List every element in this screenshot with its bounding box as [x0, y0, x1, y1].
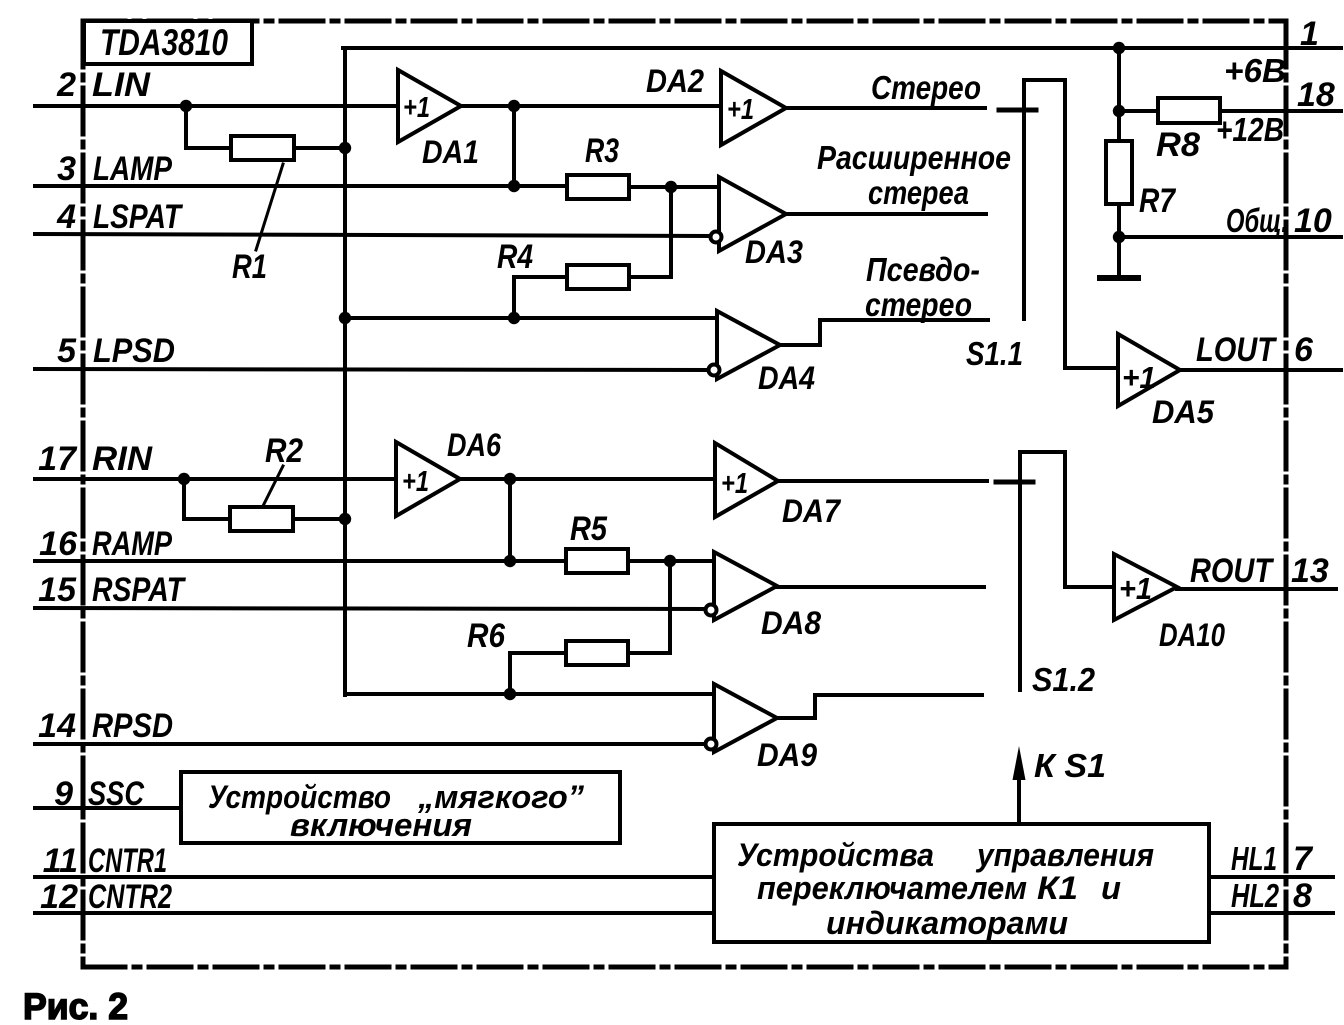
op-amp DA3: [711, 177, 804, 270]
svg-text:DA4: DA4: [758, 360, 815, 396]
svg-text:стереа: стереа: [868, 174, 969, 211]
wire CNTR1 row (pin 11 to control box): [35, 875, 714, 879]
wire LSPAT row (pin 4 to DA3 inverting input): [35, 234, 710, 236]
svg-text:переключателем: переключателем: [757, 870, 1027, 906]
svg-text:HL2: HL2: [1231, 877, 1279, 914]
wire DA1 output to junction: [461, 104, 514, 108]
wire DA2 output (stereo): [786, 106, 985, 110]
wire RAMP row (pin 16 to R5): [35, 559, 566, 563]
op-amp DA7: [715, 443, 842, 529]
svg-text:7: 7: [1293, 840, 1314, 878]
node common row junction: [1113, 231, 1125, 243]
wire RIN to R2: [184, 479, 230, 519]
wire DA8 output: [777, 585, 984, 589]
svg-text:и: и: [1101, 870, 1121, 906]
svg-text:R2: R2: [265, 432, 303, 470]
resistor R4: [567, 265, 629, 289]
svg-text:10: 10: [1294, 202, 1332, 240]
svg-text:LIN: LIN: [92, 66, 152, 104]
svg-text:TDA3810: TDA3810: [100, 22, 228, 63]
switch S1.2: [996, 452, 1096, 698]
svg-text:Стерео: Стерео: [871, 69, 981, 106]
R1 value label with leader: [232, 164, 283, 286]
wire SSC row (pin 9 to soft-start box): [35, 806, 182, 810]
node R8 branch junction: [1113, 105, 1125, 117]
node R1/main vertical junction: [339, 142, 351, 154]
svg-text:6: 6: [1294, 331, 1314, 369]
node pseudo row junction at x514: [508, 312, 520, 324]
node DA1 output junction: [508, 100, 520, 112]
wire RSPAT row (pin 15 to DA8 inverting input): [35, 608, 706, 609]
wire LOUT row (DA5 to pin 6): [1180, 368, 1341, 372]
svg-text:К S1: К S1: [1034, 747, 1106, 784]
svg-text:Псевдо-: Псевдо-: [866, 251, 980, 288]
wire ROUT row (DA10 to pin 13): [1177, 587, 1336, 591]
svg-text:R4: R4: [497, 238, 533, 276]
wire LIN row (pin 2 to DA2 input): [35, 104, 721, 108]
svg-text:R7: R7: [1139, 182, 1177, 220]
op-amp DA6: [396, 427, 501, 516]
wire +6V rail (pin 1 net): [343, 46, 1341, 50]
op-amp DA5: [1118, 334, 1215, 430]
svg-text:DA10: DA10: [1159, 617, 1225, 653]
svg-text:2: 2: [56, 66, 76, 104]
svg-text:CNTR1: CNTR1: [88, 842, 167, 880]
op-amp DA4: [709, 311, 816, 396]
svg-text:DA9: DA9: [757, 737, 817, 773]
svg-text:+1: +1: [727, 94, 754, 126]
svg-text:RIN: RIN: [92, 440, 153, 478]
svg-text:DA1: DA1: [422, 134, 479, 170]
wire pin 18 row: [1220, 109, 1341, 113]
svg-text:DA2: DA2: [646, 63, 704, 99]
svg-text:Общ.: Общ.: [1226, 202, 1288, 239]
wire DA7 output: [778, 479, 987, 483]
svg-text:стерео: стерео: [865, 286, 972, 323]
op-amp DA8: [706, 552, 822, 641]
wire R7 to ground: [1117, 204, 1121, 278]
node RAMP row junction: [504, 555, 516, 567]
svg-text:14: 14: [38, 707, 76, 745]
svg-text:8: 8: [1293, 877, 1312, 915]
resistor R7: [1106, 141, 1132, 204]
wire CNTR2 row (pin 12 to control box): [35, 911, 714, 915]
wire RPSD row (pin 14 to DA9 inverting input): [35, 742, 706, 746]
svg-text:+1: +1: [1119, 571, 1152, 606]
op-amp DA10: [1114, 554, 1225, 653]
svg-text:LAMP: LAMP: [93, 150, 172, 188]
wire DA1 output down to LAMP row: [512, 106, 516, 186]
wire RIN row (pin 17 to DA7 input): [35, 477, 715, 481]
title box TDA3810: [84, 21, 252, 64]
wire junction down to R4: [629, 187, 671, 277]
control unit box: [714, 824, 1209, 942]
node rail/R7 junction: [1113, 42, 1125, 54]
resistor R6: [566, 641, 628, 665]
svg-text:+12В: +12В: [1216, 111, 1284, 148]
svg-text:11: 11: [43, 842, 78, 880]
svg-text:CNTR2: CNTR2: [88, 878, 172, 916]
node bottom row junction: [504, 688, 516, 700]
svg-text:LSPAT: LSPAT: [93, 198, 184, 236]
svg-text:17: 17: [38, 440, 78, 478]
wire R4 left end down to pseudo row: [514, 277, 567, 318]
R2 value label with leader: [263, 432, 303, 506]
svg-text:DA3: DA3: [745, 234, 803, 270]
node pseudo row junction at main vertical: [339, 312, 351, 324]
svg-text:5: 5: [57, 332, 77, 370]
svg-text:Устройства: Устройства: [737, 837, 934, 873]
resistor R2: [230, 507, 293, 531]
svg-text:15: 15: [38, 571, 77, 609]
svg-text:+1: +1: [403, 92, 430, 124]
resistor R3: [567, 175, 629, 199]
wire pseudo row (main vertical to DA4 input): [345, 316, 717, 320]
op-amp DA9: [706, 684, 818, 773]
wire main vertical bus: [343, 48, 347, 695]
svg-text:S1.1: S1.1: [966, 335, 1023, 372]
node LAMP row junction: [508, 180, 520, 192]
svg-text:Рис. 2: Рис. 2: [23, 986, 128, 1025]
svg-text:1: 1: [1300, 15, 1319, 53]
svg-text:4: 4: [56, 198, 76, 236]
wire bottom row (main vertical to DA9 input): [345, 692, 714, 696]
svg-text:RAMP: RAMP: [92, 525, 172, 563]
svg-text:R3: R3: [585, 132, 619, 170]
wire R2 to main vertical: [293, 517, 345, 521]
svg-text:12: 12: [40, 878, 78, 916]
svg-text:Расширенное: Расширенное: [817, 139, 1011, 176]
op-amp DA1: [398, 70, 479, 170]
svg-text:DA5: DA5: [1152, 394, 1215, 430]
svg-text:13: 13: [1291, 552, 1329, 590]
svg-text:R5: R5: [570, 510, 608, 548]
op-amp DA2: [646, 63, 786, 145]
svg-text:18: 18: [1297, 76, 1335, 114]
wire R7 branch vertical: [1117, 48, 1121, 141]
svg-text:R6: R6: [467, 617, 506, 655]
svg-text:R8: R8: [1156, 126, 1200, 164]
svg-text:DA7: DA7: [782, 493, 842, 529]
svg-text:RSPAT: RSPAT: [92, 571, 187, 609]
node LIN junction: [180, 100, 192, 112]
arrow to K S1: [1013, 746, 1107, 824]
wire S1.1 wiper to DA5: [1065, 366, 1118, 370]
wire R6 left end down to bottom row: [510, 653, 566, 694]
svg-text:3: 3: [57, 150, 76, 188]
svg-text:LPSD: LPSD: [93, 332, 175, 370]
resistor R1: [231, 136, 294, 160]
wire R3 to DA3 input: [629, 185, 719, 189]
node DA6 output junction: [504, 473, 516, 485]
wire S1.2 wiper to DA10: [1065, 585, 1114, 589]
wire R5 to DA8 input: [628, 559, 714, 563]
soft start unit box: [181, 772, 620, 843]
resistor R8: [1158, 98, 1220, 123]
svg-text:индикаторами: индикаторами: [826, 905, 1068, 941]
svg-text:DA6: DA6: [447, 427, 501, 463]
svg-text:+1: +1: [1122, 360, 1156, 395]
svg-text:R1: R1: [232, 248, 267, 286]
wire DA6 output down to RAMP row: [508, 479, 512, 561]
node R5/R6/DA8 junction: [664, 555, 676, 567]
svg-text:+6В: +6В: [1224, 52, 1286, 89]
svg-text:RPSD: RPSD: [92, 707, 173, 745]
svg-text:+1: +1: [721, 468, 748, 500]
wire LIN to R1: [186, 106, 231, 148]
svg-text:управления: управления: [975, 837, 1154, 873]
svg-text:включения: включения: [290, 807, 472, 843]
wire R1 to main vertical: [294, 146, 345, 150]
wire LAMP row (pin 3 to R3): [35, 184, 567, 188]
node R2/main vertical junction: [339, 513, 351, 525]
svg-text:LOUT: LOUT: [1196, 331, 1278, 369]
wire DA3 output (expanded stereo): [786, 212, 986, 216]
svg-text:HL1: HL1: [1231, 840, 1277, 877]
wire HL1 row (control box to pin 7): [1209, 875, 1333, 879]
svg-text:DA8: DA8: [761, 605, 821, 641]
node R3/R4/DA3 junction: [665, 181, 677, 193]
wire DA4 output with step (pseudo stereo): [780, 320, 988, 345]
svg-text:S1.2: S1.2: [1032, 661, 1096, 698]
wire to R8: [1119, 109, 1158, 113]
svg-text:+1: +1: [402, 466, 429, 498]
svg-text:К1: К1: [1037, 870, 1078, 906]
switch S1.1: [966, 80, 1065, 372]
ground: [1100, 275, 1138, 281]
wire LPSD row (pin 5 to DA4 inverting input): [35, 369, 709, 370]
wire DA9 output with step: [777, 695, 982, 718]
node RIN junction: [178, 473, 190, 485]
svg-text:ROUT: ROUT: [1190, 552, 1275, 590]
svg-text:16: 16: [39, 525, 78, 563]
resistor R5: [566, 549, 628, 573]
wire HL2 row (control box to pin 8): [1209, 911, 1333, 915]
wire common row (pin 10): [1119, 235, 1341, 239]
wire junction down to R6: [628, 561, 670, 653]
